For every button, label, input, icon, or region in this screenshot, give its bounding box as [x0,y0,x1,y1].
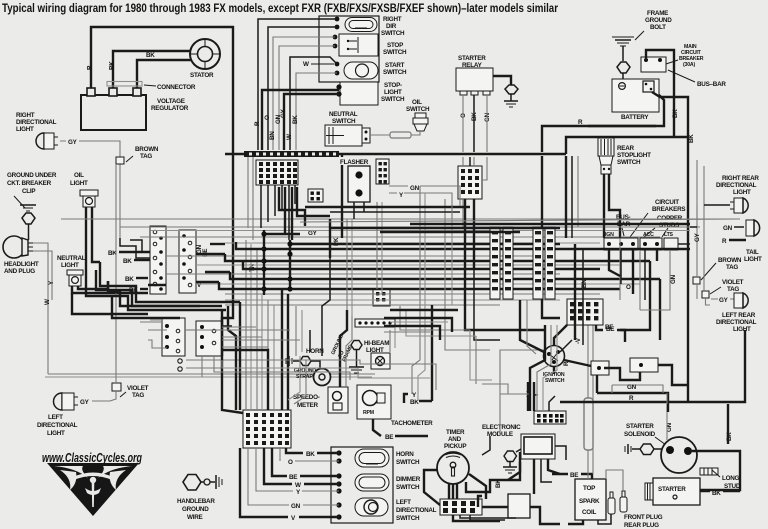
svg-text:BE: BE [606,326,614,333]
breaker top wire [646,50,674,137]
circuit breaker leaders [630,213,668,237]
horizontal runs y207-216 center [300,207,740,222]
frame ground bolt leader [635,31,644,40]
grid feeder stair jogs [246,330,310,410]
svg-text:FRAME: FRAME [647,10,668,17]
headlight bulb [3,236,33,258]
violet tag wire down [110,164,116,401]
svg-text:REAR PLUG: REAR PLUG [624,522,659,529]
svg-text:AND PLUG: AND PLUG [4,268,35,275]
bottom right R trunk wires [597,393,668,412]
ground clip leader [14,196,25,208]
svg-text:BN: BN [269,131,276,140]
svg-text:BK: BK [123,258,132,265]
gray staircase loops center-bottom [202,306,508,394]
wire GN to right rear bulb [704,204,730,206]
electronic module box [521,434,555,459]
horn wire [311,361,320,369]
label CONNECTOR with leader [144,85,156,86]
stop-light thick wire [262,90,339,150]
svg-text:OIL: OIL [412,99,422,106]
wire bolt to hexagon [622,46,624,61]
svg-text:R: R [722,238,727,245]
switch wires to bundle [258,19,337,150]
stator U1 [190,39,220,69]
left lower thick bundle extra [96,270,222,318]
vertical gray pair to spark coil [587,305,589,479]
svg-text:LIGHT: LIGHT [733,326,751,333]
solenoid ground strap [625,444,631,454]
switch terminal dots [335,17,340,22]
wire from clip to headlight [28,224,30,240]
stoplight switch wires down [603,174,605,238]
svg-text:COIL: COIL [582,509,596,516]
flasher tail wires down [354,202,364,219]
handlebar ground hexagon [183,475,201,491]
main trunk connector bar [244,151,339,157]
relay ground hexagon [505,85,518,94]
left rear directional bulb [734,293,748,308]
main circuit breaker box [641,57,666,72]
svg-text:BE: BE [385,434,393,441]
svg-text:GY: GY [694,232,701,242]
left staircase wires from connectors to bus [72,238,240,314]
svg-text:GY: GY [719,297,729,304]
small vertical connector below flasher [376,159,389,184]
svg-text:GROUND: GROUND [182,506,209,513]
svg-text:HORN: HORN [396,451,414,458]
svg-text:(30A): (30A) [683,62,695,68]
relay ground wire [493,76,511,88]
staircase merges into junction columns [196,242,290,289]
start switch oval [344,62,378,79]
small box lower right pair [630,358,658,372]
starter solenoid circle [661,437,697,473]
svg-text:BOLT: BOLT [650,24,666,31]
bottom harness grid connector [243,410,291,448]
battery [612,79,659,112]
svg-text:DIRECTIONAL: DIRECTIONAL [716,319,757,326]
horn ground strap symbol [286,356,292,366]
second junction box center [196,321,222,356]
breaker strip wires down [604,228,670,310]
oil switch symbol [413,113,428,131]
central bus black horizontals [264,234,690,289]
violet tag square right [702,291,709,298]
svg-text:GN: GN [670,274,677,284]
svg-text:GN: GN [410,185,420,192]
svg-text:AND: AND [448,436,462,443]
GN gray loop bottom right [612,385,663,393]
logo triangle with eagle [47,463,139,516]
svg-text:STOPLIGHT: STOPLIGHT [617,152,651,159]
long stud ribbed [700,468,718,475]
svg-text:REAR: REAR [617,145,635,152]
small grid connector above horn [373,289,390,306]
stop-light switch box [340,82,378,105]
svg-text:TAG: TAG [726,264,738,271]
solenoid hexagon [632,448,640,450]
circuit breakers copper studs strip [604,232,678,250]
rear stoplight switch symbol [598,138,614,174]
svg-text:R: R [87,65,94,70]
handlebar switch housing [319,16,379,82]
ignition switch circle [544,346,565,367]
svg-text:SWITCH: SWITCH [396,459,420,466]
verticals bus down to speedo/horn x345-352 [322,258,352,387]
svg-text:LEFT: LEFT [48,414,63,421]
svg-text:BREAKERS: BREAKERS [652,206,685,213]
left vertical connector strip A [150,226,166,294]
small circles 0 0 below junction box [178,359,182,363]
ignition wires [553,367,555,374]
thick pair down to grid x282-288 [282,289,288,410]
svg-text:LIGHT: LIGHT [733,189,751,196]
svg-text:BN: BN [581,279,588,288]
svg-text:SOLENOID: SOLENOID [624,431,656,438]
neutral switch body [325,125,370,146]
small 2x2 connector left of flasher [308,189,323,202]
svg-text:STARTER: STARTER [658,486,686,493]
svg-text:DIRECTIONAL: DIRECTIONAL [716,182,757,189]
tall connector strip pair A2 (x504) [503,227,513,299]
svg-text:TACHOMETER: TACHOMETER [391,420,433,427]
wires y330-360 left-center [150,320,300,410]
right rear directional bulb [730,198,748,213]
dimmer switch oval [355,474,389,491]
spark coil tube component [584,398,593,450]
svg-text:SWITCH: SWITCH [396,484,420,491]
svg-text:BK: BK [688,134,695,143]
svg-text:LEFT REAR: LEFT REAR [722,312,756,319]
wires below trunk from relay drop connector [463,157,487,228]
svg-text:STARTER: STARTER [458,55,486,62]
svg-text:GY: GY [80,399,90,406]
svg-text:STOP-: STOP- [384,82,402,89]
svg-text:BROWN: BROWN [135,146,159,153]
flasher box [348,166,370,202]
svg-text:SWITCH: SWITCH [617,159,641,166]
svg-text:TAG: TAG [132,392,144,399]
hi-beam light box [371,353,390,369]
svg-text:R: R [254,121,261,126]
gray loop from flasher GN to right [452,199,460,219]
long horizontal gray wire upper-left [61,218,740,220]
white box right of timer block [508,494,530,518]
small connector right of relay wires [458,166,482,199]
svg-text:SWITCH: SWITCH [381,30,405,37]
spark coil box [575,479,606,520]
connector strip above module [534,411,566,424]
small junction box left-center (y320) [162,318,185,356]
svg-text:W: W [286,134,293,140]
BK trunk right vertical [687,137,689,300]
switch box terminal dots [336,450,341,455]
trunk line across [339,153,566,155]
svg-text:RPM: RPM [363,410,374,416]
wire BK stator lower [137,60,191,95]
svg-text:GN: GN [627,384,637,391]
svg-text:CLIP: CLIP [22,188,35,195]
svg-text:NEUTRAL: NEUTRAL [57,255,86,262]
svg-text:BATTERY: BATTERY [621,114,649,121]
svg-text:PICKUP: PICKUP [444,443,466,450]
svg-text:BROWN: BROWN [718,257,742,264]
svg-text:TAIL: TAIL [746,249,759,256]
module ground hexagon [504,451,517,462]
junction column dots x264 [261,230,266,295]
svg-text:GN: GN [723,225,733,232]
wires into connector from above [527,382,529,411]
ground symbol under breaker clip [20,205,36,211]
vertical pair from trunk down x565-575 [566,156,583,345]
svg-text:BE: BE [570,472,578,479]
svg-text:START: START [385,62,405,69]
svg-text:SWITCH: SWITCH [545,378,565,384]
svg-text:LIGHT: LIGHT [384,89,402,96]
oil light symbol [80,190,98,207]
svg-text:FLASHER: FLASHER [340,159,369,166]
svg-text:O: O [264,115,271,120]
stoplight wires to bus [604,196,609,238]
svg-text:W: W [295,482,301,489]
svg-text:CKT. BREAKER: CKT. BREAKER [7,180,52,187]
svg-text:NEUTRAL: NEUTRAL [329,111,358,118]
svg-text:ELECTRONIC: ELECTRONIC [482,424,521,431]
svg-text:BK: BK [146,52,155,59]
svg-text:BK: BK [109,61,116,70]
svg-text:STRAP: STRAP [296,374,313,380]
svg-text:BK: BK [125,276,134,283]
right directional light bulb [36,133,58,149]
headlight wires [33,243,48,374]
svg-text:BK: BK [306,451,315,458]
left long gray loop down [48,373,375,375]
right middle connector grid [567,299,603,325]
timer to coil heavy wiring [424,452,520,521]
handlebar switch box bottom [331,447,393,523]
svg-text:GROUND: GROUND [645,17,672,24]
relay ground symbol [504,94,518,107]
hexagon clip [22,213,35,224]
svg-text:BE: BE [289,474,297,481]
svg-text:LIGHT: LIGHT [61,262,79,269]
L-bend cluster below band right-center [384,310,458,340]
svg-text:W: W [44,299,51,305]
battery ground hexagon [617,62,630,73]
svg-text:STARTER: STARTER [626,423,654,430]
wire hexagon to battery [622,73,624,80]
svg-text:O: O [626,284,631,291]
module ground symbol [503,462,517,473]
label BROWN TAG with leader [126,156,133,162]
svg-text:TIMER: TIMER [446,429,465,436]
svg-text:DIRECTIONAL: DIRECTIONAL [37,422,78,429]
svg-text:GY: GY [280,108,287,118]
stop switch [339,34,378,56]
right column connector small [596,325,625,342]
flasher area wires [389,186,460,206]
R trunk into bus staircase [222,300,233,356]
svg-text:SWITCH: SWITCH [332,118,356,125]
svg-text:METER: METER [297,402,318,409]
svg-text:CONNECTOR: CONNECTOR [157,84,196,91]
timer wires to module area [449,483,457,499]
wire R from voltage regulator to top trunk [91,27,234,95]
timer and pickup circle [437,452,469,484]
svg-text:DIRECTIONAL: DIRECTIONAL [16,119,57,126]
stoplight loop wire y137 [566,137,688,154]
svg-text:TAG: TAG [727,286,739,293]
horn hexagon [293,360,300,362]
voltage regulator [81,88,146,130]
svg-text:SWITCH: SWITCH [383,69,407,76]
svg-text:HI-BEAM: HI-BEAM [364,340,389,347]
svg-text:LIGHT: LIGHT [47,430,65,437]
svg-text:www.ClassicCycles.org: www.ClassicCycles.org [42,450,142,465]
right side gray verticals to tags [696,160,698,299]
svg-text:WIRE: WIRE [187,514,202,521]
svg-text:LIGHT: LIGHT [16,126,34,133]
ground to frame symbol [349,350,364,373]
svg-text:DIR: DIR [386,23,397,30]
wire BK stator upper [113,51,190,95]
module wire to hexagon [516,449,521,452]
thick verticals below big connector [279,187,330,240]
left directional switch oval [355,498,388,516]
small box right of ignition [591,361,609,375]
svg-text:VIOLET: VIOLET [127,385,149,392]
speedometer small box [328,387,348,413]
right dir switch oval [345,18,377,32]
resistor tube to oil switch [390,132,411,138]
svg-text:DIRECTIONAL: DIRECTIONAL [396,507,437,514]
svg-text:GROUND UNDER: GROUND UNDER [7,172,57,179]
front plug symbol [608,492,615,514]
module to coil wires [482,394,566,474]
central bus gray horizontals [120,227,700,305]
hi-beam hexagon [351,341,362,350]
svg-text:RIGHT: RIGHT [16,112,35,119]
svg-text:GY: GY [68,139,78,146]
timer to module thick nest [466,462,520,520]
svg-text:BK: BK [672,109,679,118]
wires ignition area loops [445,270,567,350]
tall connector strip pair A (x492) [490,227,500,299]
wires trunk to ignition area [520,300,591,366]
svg-text:STOP: STOP [387,42,403,49]
svg-text:TOP: TOP [583,485,595,492]
svg-text:DIMMER: DIMMER [396,476,421,483]
tail light bulb upper [746,220,760,236]
wires into junction box [148,330,167,348]
svg-text:STATOR: STATOR [190,72,214,79]
spark coil bottom wires to plugs [568,470,623,524]
svg-text:O: O [288,459,293,466]
frame ground symbol [612,37,634,46]
wires between breakers and tail lights [678,205,697,244]
svg-text:GN: GN [291,503,301,510]
tachometer box with bulb [357,385,391,419]
thick black bus segments reinforcement [330,224,690,232]
big harness connector below trunk [256,160,298,185]
handlebar ground wire circle [201,481,204,483]
svg-text:OIL: OIL [74,172,84,179]
svg-text:VOLTAGE: VOLTAGE [157,98,185,105]
gray pair wires below junction boxes [186,360,250,368]
wire GY to brown tag wire [60,141,120,238]
bus verticals crossing (gray pairs) [347,186,640,316]
bus to bottom vertical bundle x223-240 [222,240,274,413]
svg-text:HEADLIGHT: HEADLIGHT [4,261,39,268]
nested loops right-bottom (GN R wires) [500,300,745,404]
svg-text:SWITCH: SWITCH [381,96,405,103]
svg-text:SWITCH: SWITCH [396,515,420,522]
svg-text:SPARK: SPARK [579,498,600,505]
svg-text:BUS–BAR: BUS–BAR [697,81,726,88]
svg-text:LEFT: LEFT [396,499,411,506]
starter relay box [456,68,493,95]
svg-text:W: W [303,61,309,68]
svg-text:R: R [578,119,583,126]
bus verticals black [330,154,660,340]
junction box2 wires right [222,327,268,347]
svg-text:SWITCH: SWITCH [383,49,407,56]
svg-text:LTS: LTS [664,232,674,238]
brown tag square right [693,277,700,284]
neutral light wires [72,286,148,293]
connector strip above hi-beam [355,319,395,327]
svg-text:RIGHT: RIGHT [383,16,402,23]
starter motor [645,478,700,505]
svg-text:VIOLET: VIOLET [722,279,744,286]
violet tag lower [112,383,121,391]
wire R trunk vertical [232,26,234,300]
extra verticals below band to timer strip [530,325,557,411]
tall connector strip pair B2 (x546) [545,227,555,299]
left directional light bulb [54,393,79,410]
bus-bar thick wire to BK trunk [652,92,688,137]
svg-text:REGULATOR: REGULATOR [151,105,189,112]
svg-text:HANDLEBAR: HANDLEBAR [177,498,215,505]
svg-text:FRONT PLUG: FRONT PLUG [624,514,663,521]
svg-text:SWITCH: SWITCH [406,106,430,113]
svg-text:CIRCUIT: CIRCUIT [655,199,679,206]
relay wires down [462,95,464,152]
svg-text:BK: BK [292,115,299,124]
battery R wire [542,95,664,152]
svg-text:BK: BK [712,490,721,497]
junction column dots x290 [287,240,292,292]
timer lower connector block [440,499,482,515]
FLASHER label [339,157,370,165]
svg-text:TAG: TAG [140,153,152,160]
thick wires timer to coil area [482,507,560,524]
svg-text:LIGHT: LIGHT [70,180,88,187]
svg-text:R: R [629,395,634,402]
wires oil switch [370,131,420,135]
svg-text:LIGHT: LIGHT [744,256,762,263]
connector bar above regulator [107,82,142,87]
rear plug symbol [620,491,627,512]
neutral light symbol [67,270,83,286]
svg-text:LONG: LONG [722,475,740,482]
svg-text:STUD: STUD [724,483,741,490]
verticals down to tach x420-432 [412,305,432,401]
brown tag [116,157,124,164]
horn circle [314,369,331,386]
handlebar ground symbol [216,475,222,489]
